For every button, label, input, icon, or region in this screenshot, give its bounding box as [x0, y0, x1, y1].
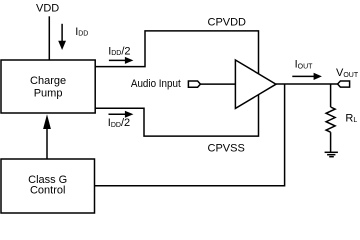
svg-text:VOUT: VOUT [336, 67, 359, 79]
svg-text:IOUT: IOUT [295, 59, 314, 71]
control arrow Class G to Charge Pump [43, 114, 51, 159]
op-amp A1 output amplifier [235, 60, 276, 108]
svg-text:Control: Control [30, 185, 65, 197]
svg-text:IDD: IDD [75, 26, 88, 38]
block Charge Pump [1, 60, 95, 113]
svg-text:RL: RL [345, 112, 357, 124]
current arrow IOUT [292, 73, 322, 80]
wire audio input to amplifier [200, 83, 235, 85]
current arrow IDD/2 (bottom) [109, 111, 134, 118]
resistor RL [326, 107, 335, 132]
current arrow IDD/2 (top) [109, 57, 133, 64]
current arrow IDD [58, 24, 66, 50]
output port VOUT [338, 81, 350, 87]
svg-text:Charge: Charge [30, 75, 66, 87]
input port Audio Input [188, 81, 200, 87]
wire feedback output to Class G Control [95, 84, 285, 186]
wire CPVSS supply (Charge Pump to amplifier bottom) [95, 93, 259, 136]
wire CPVDD supply (Charge Pump to amplifier top) [95, 31, 259, 76]
svg-text:CPVDD: CPVDD [208, 17, 247, 29]
svg-text:Pump: Pump [34, 87, 63, 99]
svg-text:Audio Input: Audio Input [131, 78, 181, 90]
svg-text:IDD/2: IDD/2 [108, 45, 130, 57]
wire amplifier output to VOUT [276, 83, 338, 85]
ground [325, 152, 338, 156]
wire VOUT to RL [330, 84, 332, 107]
wire VDD to Charge Pump [48, 16, 50, 60]
block Class G Control [1, 159, 95, 213]
svg-text:CPVSS: CPVSS [208, 143, 245, 155]
wire RL to ground [330, 132, 332, 152]
svg-text:VDD: VDD [36, 2, 59, 14]
svg-text:IDD/2: IDD/2 [108, 117, 130, 129]
